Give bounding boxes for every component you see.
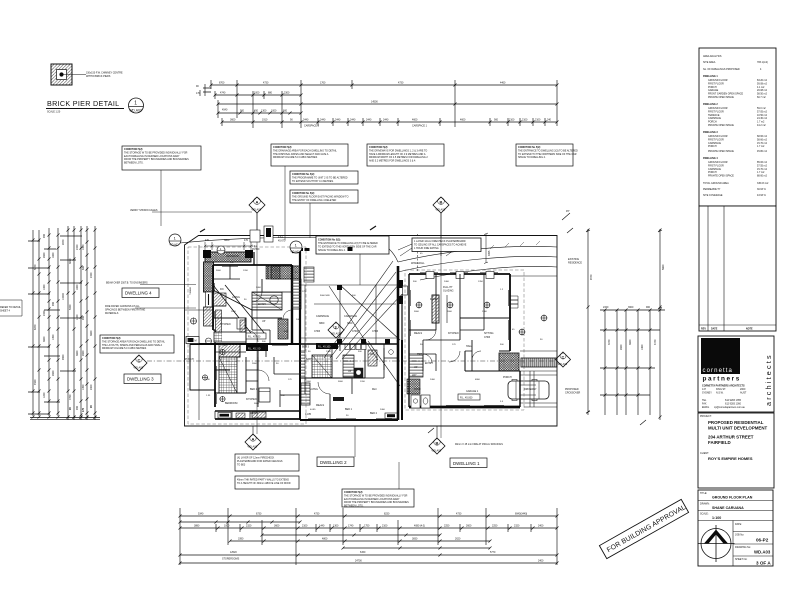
svg-text:45.550: 45.550: [252, 248, 260, 251]
svg-text:1200: 1200: [43, 392, 46, 398]
svg-text:SHEET No:: SHEET No:: [735, 558, 748, 561]
condition note bottom: [342, 426, 414, 508]
svg-text:ROY'S EMPIRE HOMES: ROY'S EMPIRE HOMES: [708, 456, 753, 461]
svg-text:PROJECT:: PROJECT:: [700, 415, 712, 418]
svg-text:DATE:: DATE:: [735, 523, 742, 526]
svg-text:DWELLING 2: DWELLING 2: [703, 103, 718, 106]
door arcs: [246, 292, 481, 394]
horizontal connector ticks: [28, 236, 82, 414]
svg-text:SHEET 4: SHEET 4: [0, 309, 11, 312]
dwelling3 stair: [219, 357, 237, 393]
svg-text:900: 900: [52, 301, 55, 306]
svg-text:TO EXTEND SOUTH BY 0.4 METRES.: TO EXTEND SOUTH BY 0.4 METRES.: [292, 180, 334, 183]
svg-text:DN: DN: [220, 288, 224, 291]
title block: [698, 48, 777, 566]
dwelling2 entry stair: [304, 267, 314, 282]
wall dimension specks: [206, 253, 543, 417]
svg-text:WD.A05: WD.A05: [252, 208, 262, 212]
svg-text:SITTING: SITTING: [484, 332, 494, 335]
svg-text:6070: 6070: [34, 324, 37, 330]
svg-text:WD.A03: WD.A03: [754, 550, 771, 555]
svg-text:GARAGE 1: GARAGE 1: [466, 390, 479, 393]
dim row 3b: [343, 547, 490, 549]
note box 4: [290, 171, 358, 184]
dwelling3 labels: [185, 358, 259, 415]
boundary verticals: [588, 229, 660, 415]
svg-text:5340: 5340: [198, 513, 204, 516]
landscape contours: [180, 237, 557, 280]
svg-text:architects: architects: [764, 353, 773, 406]
dwelling 2 label box: [317, 457, 354, 467]
svg-text:470: 470: [205, 239, 210, 242]
svg-text:B: B: [440, 200, 443, 205]
svg-text:CARSPACE 2: CARSPACE 2: [304, 125, 320, 128]
party wall note bottom left: [235, 476, 299, 489]
svg-text:R.L. 45.300: R.L. 45.300: [248, 348, 261, 351]
svg-text:MEALS: MEALS: [414, 332, 423, 335]
svg-text:2600: 2600: [306, 381, 312, 383]
svg-text:BEAM OVER 250T.B. TO ENGINEERS: BEAM OVER 250T.B. TO ENGINEERS: [106, 282, 148, 285]
dwelling4 bench strip: [216, 310, 222, 334]
svg-text:2100: 2100: [382, 525, 388, 528]
section diamond C left: [131, 355, 147, 371]
svg-text:5770: 5770: [490, 551, 496, 554]
svg-text:PERMEABILITY: PERMEABILITY: [703, 188, 721, 191]
svg-text:1: 1: [134, 101, 137, 107]
svg-text:1300: 1300: [482, 311, 488, 313]
dwelling1 windows top: [420, 272, 498, 279]
svg-text:DWELLING 1: DWELLING 1: [703, 75, 718, 78]
svg-text:900: 900: [494, 119, 499, 122]
svg-text:2400: 2400: [430, 379, 436, 381]
horizontal dim row: [600, 310, 665, 395]
svg-text:9000 MIN: 9000 MIN: [320, 295, 330, 297]
svg-text:UP: UP: [348, 370, 352, 373]
svg-text:1800: 1800: [76, 284, 79, 290]
svg-text:PRIVATE OPEN SPACE: PRIVATE OPEN SPACE: [708, 96, 734, 99]
svg-text:8230: 8230: [384, 513, 390, 516]
svg-text:900: 900: [43, 233, 46, 238]
svg-text:WD.A05: WD.A05: [558, 363, 568, 366]
dwelling4 kitchen bench: [214, 320, 246, 342]
dim row 1b: [180, 521, 300, 523]
svg-text:900: 900: [240, 110, 245, 113]
dwelling2 party wall and stair: [278, 265, 301, 344]
svg-text:CH03: CH03: [372, 330, 379, 333]
note box 6 in plan: [516, 144, 578, 166]
svg-text:170: 170: [196, 92, 201, 95]
svg-text:2300: 2300: [284, 92, 290, 95]
section diamond A top: [249, 197, 265, 236]
svg-text:2400: 2400: [76, 244, 79, 250]
svg-text:CARSPACE: CARSPACE: [344, 315, 357, 318]
boundary ticks: [200, 226, 376, 232]
existing pergolas label: [565, 258, 582, 394]
dwelling4 porch hatch right: [271, 266, 300, 279]
svg-text:DWELLING 4: DWELLING 4: [125, 291, 152, 296]
dim row B: [215, 94, 301, 96]
svg-text:3880: 3880: [194, 525, 200, 528]
svg-text:SCALE 1:20: SCALE 1:20: [47, 111, 61, 114]
svg-text:NOTE: NOTE: [746, 328, 753, 331]
svg-text:2100: 2100: [302, 525, 308, 528]
svg-text:2600: 2600: [252, 363, 258, 365]
svg-text:24700: 24700: [355, 560, 362, 563]
svg-text:470: 470: [244, 239, 249, 242]
svg-text:CROSSOVER: CROSSOVER: [565, 391, 581, 394]
svg-text:2600: 2600: [620, 344, 623, 350]
svg-text:6940(3440): 6940(3440): [515, 513, 527, 516]
svg-text:240: 240: [547, 119, 552, 122]
reference circle left: [169, 234, 181, 247]
dwelling1 interior: [409, 274, 510, 371]
svg-text:BEDROOM: BEDROOM: [225, 402, 237, 405]
svg-text:LDY: LDY: [412, 374, 417, 377]
svg-text:2600: 2600: [231, 311, 237, 313]
svg-text:3: 3: [335, 326, 337, 330]
svg-text:4740: 4740: [220, 92, 226, 95]
svg-text:SYDNEY: SYDNEY: [702, 392, 712, 395]
svg-text:1060: 1060: [641, 344, 644, 350]
svg-text:880: 880: [268, 92, 273, 95]
party wall dwelling1: [397, 266, 400, 420]
brick pier detail: [46, 64, 144, 114]
svg-text:900: 900: [646, 306, 651, 309]
svg-text:PRIVATE OPEN SPACE: PRIVATE OPEN SPACE: [708, 175, 734, 178]
svg-text:60.7 m2: 60.7 m2: [757, 96, 766, 99]
svg-text:3600: 3600: [274, 525, 280, 528]
section line B: [440, 213, 442, 438]
bath hatch blocks: [213, 266, 420, 394]
svg-text:CH03: CH03: [314, 330, 321, 333]
svg-text:44.2 m2: 44.2 m2: [757, 124, 766, 127]
svg-text:PORCH: PORCH: [185, 358, 194, 361]
svg-text:RESIDENCE: RESIDENCE: [568, 261, 582, 264]
svg-text:45°: 45°: [566, 210, 570, 213]
svg-text:1200: 1200: [76, 314, 79, 320]
diamond A bottom: [245, 426, 261, 450]
dim row A: [211, 84, 557, 86]
site boundary: [185, 236, 558, 427]
windows double lines: [213, 265, 510, 420]
svg-text:BRICK PIER DETAIL: BRICK PIER DETAIL: [47, 99, 119, 108]
dim row 3: [230, 540, 490, 542]
dim row 2: [180, 527, 557, 529]
roof overhang dashed left building: [188, 247, 306, 424]
svg-text:CARSPACE: CARSPACE: [316, 315, 329, 318]
svg-text:BATH: BATH: [306, 358, 312, 361]
svg-text:TOTAL GROUND AREA: TOTAL GROUND AREA: [703, 182, 729, 185]
approval stamp: [599, 499, 688, 558]
dwelling3 wir block: [218, 413, 231, 419]
safety label: [130, 209, 252, 212]
svg-text:30.63 %: 30.63 %: [757, 188, 767, 191]
svg-text:1350: 1350: [52, 334, 55, 340]
posts: [337, 339, 342, 344]
svg-text:1910: 1910: [262, 119, 268, 122]
svg-text:2870: 2870: [62, 239, 65, 245]
svg-text:PROPOSED RESIDENTIAL: PROPOSED RESIDENTIAL: [708, 420, 764, 425]
svg-text:3470: 3470: [608, 339, 611, 345]
svg-text:Mstr: Mstr: [372, 388, 377, 391]
dwelling 4 label: [122, 288, 159, 298]
left mini dims: [200, 84, 211, 96]
rotated dim labels: [34, 233, 93, 412]
svg-text:GLAZING: GLAZING: [443, 289, 454, 292]
svg-text:VERANDAH: VERANDAH: [226, 255, 240, 258]
svg-text:THE ENTRY OF DWELLING 4 DELETE: THE ENTRY OF DWELLING 4 DELETED: [292, 199, 337, 202]
svg-text:3600: 3600: [414, 311, 420, 313]
svg-text:FAMILY: FAMILY: [430, 298, 439, 301]
svg-text:2400: 2400: [538, 560, 544, 563]
svg-text:5400: 5400: [69, 304, 72, 310]
svg-text:DWELLING 3: DWELLING 3: [703, 131, 718, 134]
svg-text:TIMBER: TIMBER: [190, 286, 192, 295]
svg-text:DATE: DATE: [711, 328, 718, 331]
condition box left: [100, 335, 174, 353]
north compass: [701, 529, 731, 559]
svg-text:WD.A05: WD.A05: [432, 449, 442, 453]
svg-text:BETWEEN LOTS.: BETWEEN LOTS.: [124, 162, 144, 165]
svg-text:2400: 2400: [90, 272, 93, 278]
svg-text:2440: 2440: [303, 119, 309, 122]
dwelling4 entry stair: [252, 292, 282, 310]
dim row 1: [180, 515, 557, 517]
dwelling4 side deck hatch: [185, 262, 214, 344]
svg-text:3600: 3600: [43, 336, 46, 342]
svg-text:2400: 2400: [43, 310, 46, 316]
svg-text:KITCHEN: KITCHEN: [220, 323, 231, 326]
area analysis box: [699, 48, 776, 206]
svg-text:SPACE TO DWELLING 4.: SPACE TO DWELLING 4.: [318, 249, 346, 252]
svg-text:6150: 6150: [360, 551, 366, 554]
svg-text:partners: partners: [703, 376, 741, 383]
svg-text:CH03: CH03: [352, 330, 359, 333]
svg-text:3800: 3800: [319, 322, 325, 325]
dwelling1 car: [508, 380, 549, 401]
svg-text:2250: 2250: [444, 525, 450, 528]
svg-text:KITCHEN: KITCHEN: [448, 332, 459, 335]
svg-text:A: A: [252, 437, 255, 442]
svg-text:3870: 3870: [69, 258, 72, 264]
svg-text:DWELLING 4: DWELLING 4: [703, 157, 718, 160]
dim row C: [218, 103, 557, 105]
svg-text:600: 600: [283, 110, 288, 113]
dwelling2 labels: [305, 388, 377, 416]
svg-text:WD.A02: WD.A02: [291, 251, 301, 254]
svg-text:DRAWING No:: DRAWING No:: [735, 546, 751, 549]
svg-text:HALL: HALL: [466, 345, 473, 348]
svg-text:1 HOUR FIRE RATING: 1 HOUR FIRE RATING: [414, 247, 439, 250]
svg-text:3390: 3390: [238, 538, 244, 541]
note box 2: [271, 144, 348, 240]
svg-text:DRAWN:: DRAWN:: [700, 503, 710, 506]
svg-text:BED 1: BED 1: [345, 408, 353, 411]
svg-text:12520: 12520: [230, 551, 237, 554]
extra partitions left building: [213, 265, 300, 407]
svg-text:FAIRFIELD: FAIRFIELD: [708, 440, 731, 445]
svg-text:4600: 4600: [460, 119, 466, 122]
svg-text:2340: 2340: [603, 306, 609, 309]
svg-text:9000: 9000: [62, 354, 65, 360]
svg-text:2440: 2440: [320, 119, 326, 122]
svg-text:2440: 2440: [366, 119, 372, 122]
svg-text:170: 170: [82, 407, 85, 412]
svg-text:1200: 1200: [243, 270, 249, 272]
svg-text:1.7 m2: 1.7 m2: [757, 145, 765, 148]
top dimension block: [196, 80, 559, 128]
svg-text:2600: 2600: [82, 350, 85, 356]
svg-text:CARSPACE 1: CARSPACE 1: [412, 125, 428, 128]
svg-text:600: 600: [82, 265, 85, 270]
dwelling1 outer walls: [409, 274, 520, 407]
svg-text:900: 900: [76, 405, 79, 410]
svg-text:STOREROOMS: STOREROOMS: [222, 558, 240, 561]
svg-text:3800: 3800: [224, 239, 230, 242]
dwelling1 porch hatch: [499, 353, 519, 371]
svg-text:2100: 2100: [535, 119, 541, 122]
svg-text:3600: 3600: [254, 403, 260, 405]
dim row 4: [180, 554, 557, 556]
svg-text:BED 2: BED 2: [370, 412, 378, 415]
svg-text:4730: 4730: [314, 513, 320, 516]
verandah dim row: [204, 242, 253, 250]
svg-text:MINIMUM VOLUME 5.0 CUBIC METRE: MINIMUM VOLUME 5.0 CUBIC METRES: [102, 347, 147, 350]
extra partitions dwelling1: [423, 274, 484, 371]
diamond B bottom: [429, 426, 445, 454]
svg-text:WD.A05: WD.A05: [331, 333, 341, 336]
svg-text:SITE AREA: SITE AREA: [703, 61, 716, 64]
carport area: [300, 285, 400, 349]
svg-text:BED 3: BED 3: [302, 346, 310, 349]
svg-text:UP: UP: [414, 366, 418, 369]
dwelling2 walls: [300, 344, 398, 420]
svg-text:DWELLING 2: DWELLING 2: [320, 460, 347, 465]
svg-text:4800: 4800: [475, 379, 481, 381]
svg-text:450: 450: [254, 110, 259, 113]
svg-text:1300: 1300: [333, 525, 339, 528]
svg-text:LIVING: LIVING: [310, 388, 318, 391]
note box 1: [122, 146, 201, 226]
svg-text:3830: 3830: [412, 538, 418, 541]
svg-text:BETWEEN LOTS.: BETWEEN LOTS.: [344, 505, 364, 508]
svg-text:No. OF DWELLINGS PROPOSED: No. OF DWELLINGS PROPOSED: [703, 68, 740, 71]
svg-text:MEALS: MEALS: [250, 412, 259, 415]
svg-text:MATERIALS: MATERIALS: [105, 312, 119, 315]
svg-text:DRIVEWAY: DRIVEWAY: [524, 388, 537, 391]
dwelling 3 label: [124, 374, 161, 384]
svg-text:1200: 1200: [360, 381, 366, 383]
svg-text:WD.A05: WD.A05: [436, 208, 446, 212]
svg-text:3600: 3600: [90, 330, 93, 336]
svg-text:3600: 3600: [629, 339, 632, 345]
ffl boxes top: [250, 226, 286, 242]
site plan: [147, 213, 557, 508]
dim row E: [222, 121, 557, 123]
dwelling2 stair: [312, 355, 332, 378]
svg-text:4460: 4460: [500, 82, 506, 85]
dwelling1 circle symbols: [416, 302, 548, 336]
dwelling1 rear steps: [510, 296, 518, 308]
svg-text:PORCH: PORCH: [503, 376, 512, 379]
carport diamond 3: [328, 322, 344, 338]
dwelling1 room labels: [411, 262, 494, 365]
svg-text:cornetta: cornetta: [703, 368, 733, 374]
svg-text:1760: 1760: [320, 82, 326, 85]
svg-text:6730: 6730: [256, 513, 262, 516]
svg-text:N.S.W.: N.S.W.: [716, 392, 724, 395]
svg-text:A: A: [256, 200, 259, 205]
svg-text:LDY: LDY: [330, 347, 335, 350]
carport grid lines: [305, 285, 376, 344]
svg-text:PRIVATE OPEN SPACE: PRIVATE OPEN SPACE: [708, 150, 734, 153]
svg-text:44.85: 44.85: [310, 409, 316, 411]
svg-text:2400: 2400: [538, 525, 544, 528]
svg-text:1000: 1000: [224, 525, 230, 528]
svg-text:2620: 2620: [455, 538, 461, 541]
small angle marks: [428, 228, 646, 433]
section diamond C right: [556, 352, 571, 367]
svg-text:2320: 2320: [514, 525, 520, 528]
logo box cornetta partners architects: [698, 336, 774, 412]
svg-text:4730: 4730: [263, 82, 269, 85]
svg-text:4730: 4730: [456, 513, 462, 516]
dwelling4 stair circle: [270, 296, 278, 304]
dwelling4 diagonal hall walls: [213, 285, 265, 334]
title box: [698, 490, 774, 566]
svg-text:CH03: CH03: [484, 336, 491, 339]
svg-text:1300: 1300: [326, 351, 332, 353]
svg-text:2440: 2440: [335, 119, 341, 122]
svg-text:4600: 4600: [412, 119, 418, 122]
dim labels row A: [196, 82, 552, 128]
svg-text:PRIVATE OPEN SPACE: PRIVATE OPEN SPACE: [708, 124, 734, 127]
svg-text:3600: 3600: [76, 350, 79, 356]
svg-text:KITCHEN: KITCHEN: [246, 398, 257, 401]
dwelling1 bath cells: [411, 395, 430, 408]
vertical extension lines: [180, 508, 557, 565]
svg-text:9470: 9470: [590, 274, 593, 280]
dwelling4 outer walls: [190, 252, 300, 390]
side gate dashed: [417, 234, 419, 272]
svg-text:WD.A05: WD.A05: [134, 366, 144, 370]
svg-text:SCALE:: SCALE:: [700, 513, 709, 516]
svg-text:BED 1: BED 1: [250, 388, 258, 391]
condition note boxes: [122, 144, 578, 256]
svg-text:4800: 4800: [322, 538, 328, 541]
svg-text:2400: 2400: [296, 319, 302, 321]
dim row 5: [180, 562, 557, 564]
driveway diagonals: [340, 285, 400, 340]
boundary fence hatch band: [521, 358, 557, 367]
svg-text:AUST: AUST: [740, 392, 747, 395]
svg-text:1:100: 1:100: [712, 516, 721, 520]
reference circle mid: [290, 241, 302, 254]
svg-text:345.03 m2: 345.03 m2: [757, 182, 769, 185]
svg-text:B: B: [436, 441, 439, 446]
dwelling2 side stair: [301, 383, 310, 405]
dwelling4 interior partitions: [213, 279, 282, 344]
dwelling4 pantry: [237, 318, 245, 329]
svg-text:1300: 1300: [261, 110, 267, 113]
note box 5: [290, 190, 358, 238]
svg-text:JOB No:: JOB No:: [735, 534, 744, 537]
svg-text:REV: REV: [701, 328, 706, 331]
svg-text:AND 5.2 METRES FOR DWELLINGS 3: AND 5.2 METRES FOR DWELLINGS 3 & 4.: [369, 160, 416, 163]
project box: [698, 413, 774, 488]
dwelling2 bath hatch: [368, 350, 377, 366]
bottom dimension block: [179, 508, 559, 565]
